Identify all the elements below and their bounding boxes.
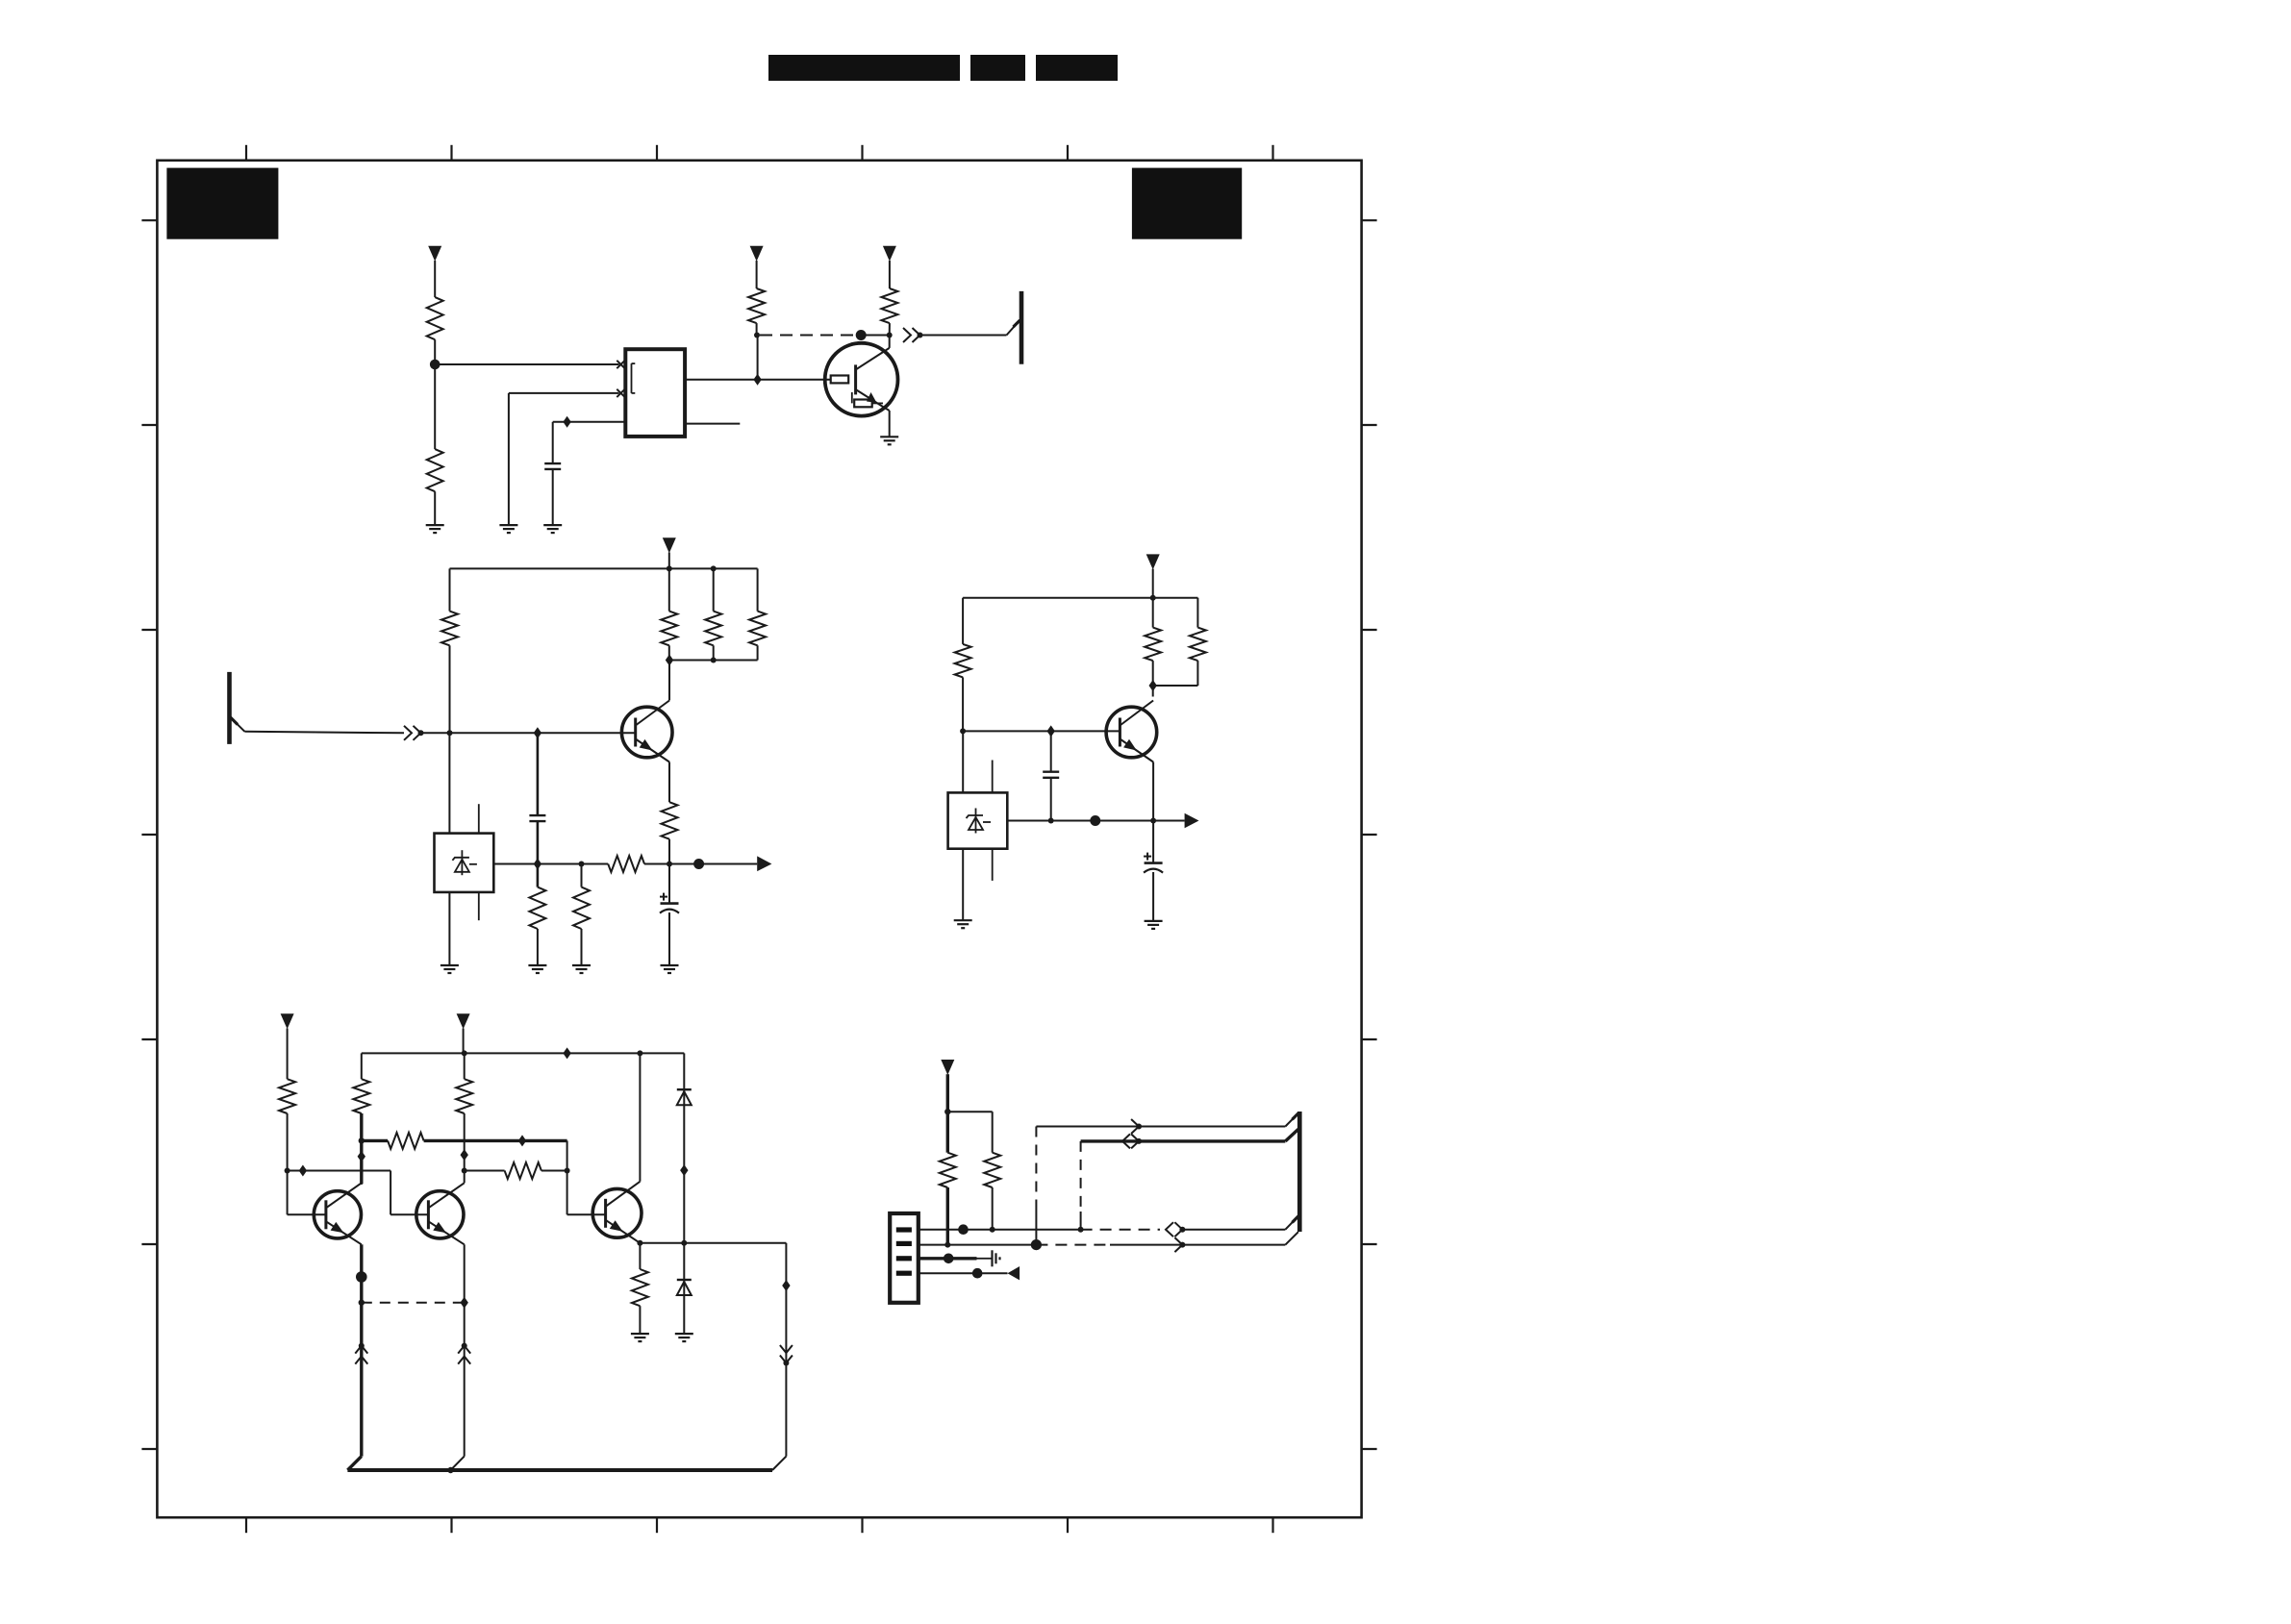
test point dot 2 [693,859,704,869]
capacitor C2 [529,814,545,816]
power symbol VCC3 [883,246,896,262]
wire node A to U1 pin1 [435,363,618,365]
node A [430,360,441,370]
node C [887,333,893,338]
capacitor C4 [1043,771,1059,773]
wire R20 to row2 [946,1187,949,1245]
wire J2 to input [230,716,245,732]
ground G8 [661,964,679,966]
wire N down to Q4 collector [360,1140,363,1184]
resistor R1 [427,297,443,339]
resistor R20 [940,1153,956,1187]
Z1 nc stub bottom [478,892,480,920]
node I [579,862,585,867]
dashed wire node B to test point [760,335,861,337]
wire D1 down [683,1089,685,1243]
top rail c4 [362,1052,685,1054]
wire node J to Z2 [962,731,964,792]
resistor R10 [573,887,590,929]
label box top-right [1132,168,1242,239]
arrow out c3 [1185,813,1199,829]
wire R19 to ground [639,1306,641,1334]
wire to Q3 collector [1152,686,1154,697]
dashed link row [362,1302,465,1304]
chevron marks out [903,328,911,342]
wire rail to R6a [668,568,670,611]
resistor R2 [427,449,443,491]
node N [359,1137,365,1143]
node G [667,862,672,867]
diamond node N2 [358,1151,365,1162]
wire C1 to ground [552,469,554,525]
diamond node base3 [1047,725,1055,737]
ground G3 [543,524,562,526]
power symbol VCC4 [663,537,676,553]
wire node T to D2 [683,1243,685,1280]
rail bottom c2 [669,660,758,662]
wire R5 to node F [449,645,451,733]
diamond node S [680,1164,688,1176]
power symbol VCC1 [428,246,441,262]
node rail c4a [462,1050,467,1056]
node L [1150,818,1156,824]
wire R1 to node A [434,339,436,364]
current arrows down rightcol [780,1345,793,1353]
wire J3 pin2 row [919,1244,1037,1246]
test point dot 3 [1090,815,1100,826]
wire J3 pin3 row [919,1257,977,1260]
wire rail to R16 [464,1053,466,1079]
wire rail to R12 [1152,598,1154,628]
title bar block 2 [970,55,1025,81]
ground G10 [1145,920,1163,922]
wire node U to Rb [947,1111,992,1112]
wire R12 to diamond [1152,661,1154,686]
resistor R5 [441,612,458,646]
dashed row1 [1081,1229,1160,1231]
current arrows up c3col [462,1343,467,1349]
capacitor C3 (electrolytic) [668,864,670,904]
wire Q6 collector up [639,1053,641,1181]
diamond rail c4 [563,1047,570,1059]
emitter row c4 [640,1242,786,1244]
wire R6c bottom [757,645,759,660]
wire test point to node C [861,335,890,337]
wire R8 to node G [668,839,670,864]
test point dot 4 [356,1271,367,1283]
transistor Q3 [1106,707,1157,758]
resistor R14 [279,1079,295,1113]
diamond node collector2 [666,655,673,666]
wire T1 row [1036,1126,1285,1128]
capacitor C1 [544,462,561,464]
node B [754,333,760,338]
wire diamond base3 to C4 [1050,731,1052,771]
wire rail to R6c [757,568,759,611]
wire H to I [538,863,582,865]
wire K to L [1051,820,1153,822]
diamond node right col [782,1280,790,1291]
wire out1 to Q1 base [758,379,831,381]
wire Q5 emitter down [464,1244,466,1302]
ground G1 [426,524,444,526]
title bar block 3 [1036,55,1118,81]
wire row2 to J4 [1285,1232,1298,1244]
transistor Q1 (digital) [825,343,898,416]
diamond node O2 [461,1149,468,1161]
wire H down [537,864,540,887]
arrow T1 [1131,1119,1139,1134]
node rail2 [711,565,717,571]
wire R15 to node N [360,1113,363,1140]
label box top-left [166,168,278,239]
wire node L to arrow [1153,820,1185,822]
node T1 [1136,1124,1142,1130]
node row1 c [1179,1227,1185,1233]
wire row1 to J4 [1182,1229,1285,1231]
resistor R21 [984,1153,1000,1187]
ground G7 [572,964,591,966]
wire R6a bottom [668,645,670,660]
wire node G to arrow [669,863,757,865]
node bus [447,1467,453,1473]
resistor R7 [608,856,644,872]
wire C4 to node K [1050,778,1052,821]
wire Q6 emitter to R19 [639,1243,641,1269]
wire I to R7 [582,863,609,865]
wire node A down [434,364,436,449]
capacitor C5 (electrolytic) [1152,821,1154,863]
diamond row R17 [518,1135,526,1146]
transistor Q2 [621,707,672,758]
wire T2 row (thick) [1081,1139,1286,1142]
ground G12 [675,1333,693,1335]
test point dot row4 [972,1268,983,1279]
wire rail to R15 [361,1053,363,1079]
wire Q4 collector diag up [361,1183,363,1186]
pin mark x1 [617,361,624,368]
resistor R13 [1190,628,1206,662]
IC U1 [625,349,685,437]
wire R9 to ground [537,929,539,965]
current arrows up c2col [359,1343,365,1349]
node row2 a [944,1242,950,1248]
wire rail to R13 [1196,598,1198,628]
wire D2 to ground [683,1280,685,1334]
diamond node base2 [534,727,541,738]
wire emitter row to right col [785,1243,787,1457]
wire R16 to node O [464,1113,466,1171]
wire J3 pin4 row [919,1272,1008,1274]
dashed vertical v1 [1035,1127,1037,1205]
diamond node pin3 [563,416,570,428]
resistor R19 [632,1269,648,1306]
wire Q1 collector [889,336,891,348]
connector J1 bar [1020,291,1024,364]
node U [944,1109,950,1114]
power symbol VCC6 [281,1013,294,1029]
wire rail to R5 [449,568,451,611]
power symbol VCC2 [750,246,764,262]
wire Z1 to ground [448,892,450,965]
transistor Q5 [416,1191,464,1238]
power symbol VCC7 [457,1013,470,1029]
row resistor R18 [465,1170,505,1172]
dashed vertical v2 [1080,1141,1082,1212]
wire node U to R20 [946,1112,949,1153]
node rail3 [711,658,717,663]
resistor R3 [748,288,765,323]
wire Q5 collector [464,1171,466,1184]
wire Z2 out [1007,820,1050,822]
node Q [359,1300,365,1306]
node F [447,730,453,736]
connector J2 bar [227,672,232,744]
TVS Z1 [435,834,494,892]
wire node F to Q2 base [450,732,636,734]
transistor Q6 [592,1188,642,1237]
wire Q1 emitter to ground [883,407,890,411]
wire rail to D1 [683,1053,685,1089]
resistor R12 [1145,628,1161,662]
ground G5 [441,964,459,966]
diamond node H [534,859,541,870]
wire J3 pin1 row [919,1229,1081,1231]
Z2 nc stub top [992,761,994,793]
resistor R16 [456,1079,472,1113]
arrow pair row1 [1166,1222,1173,1237]
pin mark x2 [617,389,624,397]
wire Z2 to ground [962,849,964,921]
wire row2 solid [1110,1244,1285,1246]
diamond node M2 [299,1165,307,1177]
wire Q2 emitter [668,762,670,803]
resistor R8 [662,802,678,839]
wire R13 to diamond [1196,661,1198,686]
diamond node collector3 [1149,680,1157,691]
title bar block 1 [768,55,960,81]
wire Q4 emitter to bus [360,1303,363,1457]
wire U1 out2 stub [685,423,740,425]
resistor R4 [881,288,897,323]
wire Z1 out [493,863,538,865]
wire diamond base2 to C2 [537,733,540,815]
wire U1 pin3 [553,421,626,423]
chassis ground row3 [991,1250,993,1266]
test point dot row2 [1031,1239,1042,1250]
node rail c4b [637,1050,642,1056]
wire R7 to node G [644,863,669,865]
wire R17 to corner [424,1139,567,1142]
ground bus [347,1468,772,1472]
resistor R15 [353,1079,369,1113]
power symbol VCC5 [1146,554,1160,569]
wire U1 pin2 [509,392,619,394]
node T [681,1240,687,1246]
node T2 [1136,1138,1142,1144]
wire rail to R11 [962,598,964,644]
wire to Q2 collector [668,661,670,701]
wire U1 out1 [685,379,758,381]
node M [285,1168,290,1174]
wire R21 to row1 [992,1187,994,1230]
wire to connector J1 [920,335,1007,337]
diode D2 [677,1279,692,1281]
power symbol VCC8 [941,1060,954,1075]
resistor R6b [705,612,721,646]
wire Q6 emitter node [637,1240,642,1246]
node K [1048,818,1054,824]
drawing frame [157,161,1361,1517]
wire node J to Q3 base [963,730,1120,732]
ground G11 [631,1333,649,1335]
arrow into J3 [1008,1266,1020,1280]
node row2 b [1179,1242,1185,1248]
wire I down [581,864,583,887]
wire Q4 emitter down [360,1244,363,1302]
resistor R9 [529,887,545,929]
wire R3 to node B [756,323,758,335]
connector J4 bar [1297,1112,1302,1232]
dashed row2 [1036,1244,1110,1246]
arrow pair T2 [1122,1134,1130,1148]
resistor R17 [388,1133,424,1149]
wire Q5 emitter to bus [464,1303,466,1457]
transistor Q4 [314,1191,361,1238]
resistor R11 [955,644,971,678]
resistor R6a [661,612,677,646]
Z2 nc stub bottom [992,849,994,881]
arrow out c2 [757,856,771,871]
wire R14 to node M [287,1113,289,1171]
wire input to node F [421,732,450,734]
wire R4 to node C [889,323,891,335]
diamond node R [461,1297,468,1309]
wire R2 to ground [434,491,436,525]
wire rail to R6b [713,568,715,611]
node J [960,728,966,734]
base cross wire [288,1170,391,1172]
chevron marks in [404,726,412,740]
TVS Z2 [948,792,1008,848]
thick row R17 [362,1139,388,1142]
node P [565,1168,570,1174]
diode D1 [677,1088,692,1090]
wire node M to Q4 base [287,1171,289,1215]
arrow row2 [1174,1237,1182,1252]
rail top c2 [450,567,758,569]
test point dot [856,330,867,340]
wire node F to Z1 [448,733,450,833]
ground G9 [954,919,972,921]
wire R6b bottom [713,645,715,660]
test point dot row3 [944,1254,954,1264]
connector J3 [890,1213,919,1303]
node row1 b [1078,1227,1084,1233]
test point dot row1 [958,1224,969,1235]
Z1 nc stub top [478,804,480,833]
node D [918,333,923,338]
diamond node out1 [753,374,761,386]
rail top c3 [963,597,1197,599]
node O [462,1168,467,1174]
wire R11 to node J [962,677,964,731]
node E [418,730,424,736]
wire node B down to diamond [757,336,759,380]
ground G6 [528,964,546,966]
wire Q3 emitter [1152,762,1154,821]
resistor R6c [749,612,766,646]
node rail1 [667,565,672,571]
ground G2 [499,524,517,526]
node row1 a [990,1227,995,1233]
ground G4 [880,436,898,437]
wire R10 to ground [581,929,583,965]
node rail c3 [1150,595,1156,601]
wire C2 to node H [537,821,540,863]
